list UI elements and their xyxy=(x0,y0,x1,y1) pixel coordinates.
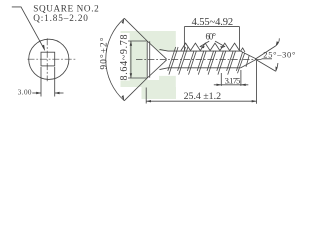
top crest zigzag xyxy=(181,43,240,51)
green watermark lower tongue xyxy=(142,87,177,99)
right flank extension xyxy=(215,41,225,47)
head cone lower edge xyxy=(147,63,164,78)
leader line to SQUARE NO.2 label xyxy=(12,7,45,50)
svg-text:90°±2°: 90°±2° xyxy=(99,37,109,69)
dim line horizontal xyxy=(184,26,239,28)
point taper bottom edge xyxy=(241,59,256,67)
3.00 dimension line right segment with arrow xyxy=(55,92,64,94)
svg-text:8.64~9.78: 8.64~9.78 xyxy=(119,35,130,81)
right drop xyxy=(239,27,241,51)
svg-text:25.4 ±1.2: 25.4 ±1.2 xyxy=(184,91,221,102)
3.00 extension line left xyxy=(40,67,42,97)
dimension line vertical xyxy=(130,41,132,78)
top root line xyxy=(160,49,241,51)
thread helix ribbon lines xyxy=(168,47,249,75)
head face line xyxy=(146,41,148,78)
extension line bottom xyxy=(128,77,146,79)
left drop xyxy=(183,27,185,51)
upper arc hook xyxy=(276,38,280,46)
horizontal centerline xyxy=(28,58,78,60)
head face second line xyxy=(149,41,151,77)
head cone upper edge xyxy=(147,41,164,56)
left flank extension xyxy=(200,41,209,47)
angle arc xyxy=(106,18,124,100)
svg-text:3.175: 3.175 xyxy=(225,75,241,85)
3.00 dimension line left segment with arrow xyxy=(32,92,41,94)
right extension line xyxy=(240,70,242,86)
green watermark block xyxy=(121,31,176,87)
dim line xyxy=(214,84,249,86)
upper angle line xyxy=(256,46,276,59)
point taper top edge xyxy=(240,51,257,59)
cone flank extension upper xyxy=(124,18,147,41)
text underline hook xyxy=(262,58,273,60)
bottom root line xyxy=(160,68,241,70)
3.00 extension line right xyxy=(54,67,56,97)
cone flank extension lower xyxy=(124,78,147,101)
left extension line xyxy=(145,88,147,104)
svg-text:Q:1.85–2.20: Q:1.85–2.20 xyxy=(33,13,88,23)
square recess xyxy=(41,52,55,66)
taper crest bump xyxy=(241,48,245,52)
head circle xyxy=(29,39,69,79)
axis centerline xyxy=(136,59,262,61)
screw body white silhouette xyxy=(147,41,167,78)
lower angle line xyxy=(256,59,276,71)
leader arrowhead xyxy=(42,45,45,52)
svg-text:3.00: 3.00 xyxy=(18,89,32,97)
dim line xyxy=(146,100,256,102)
right extension line xyxy=(256,61,258,104)
svg-text:60°: 60° xyxy=(205,32,216,42)
left extension line xyxy=(220,73,222,86)
svg-text:4.55~4.92: 4.55~4.92 xyxy=(192,17,234,28)
vertical centerline xyxy=(46,38,48,81)
extension line top xyxy=(128,40,146,42)
lower arc hook xyxy=(276,63,278,71)
white mask behind 8.64~9.78 text xyxy=(119,33,130,81)
svg-text:25°–30°: 25°–30° xyxy=(263,50,295,59)
